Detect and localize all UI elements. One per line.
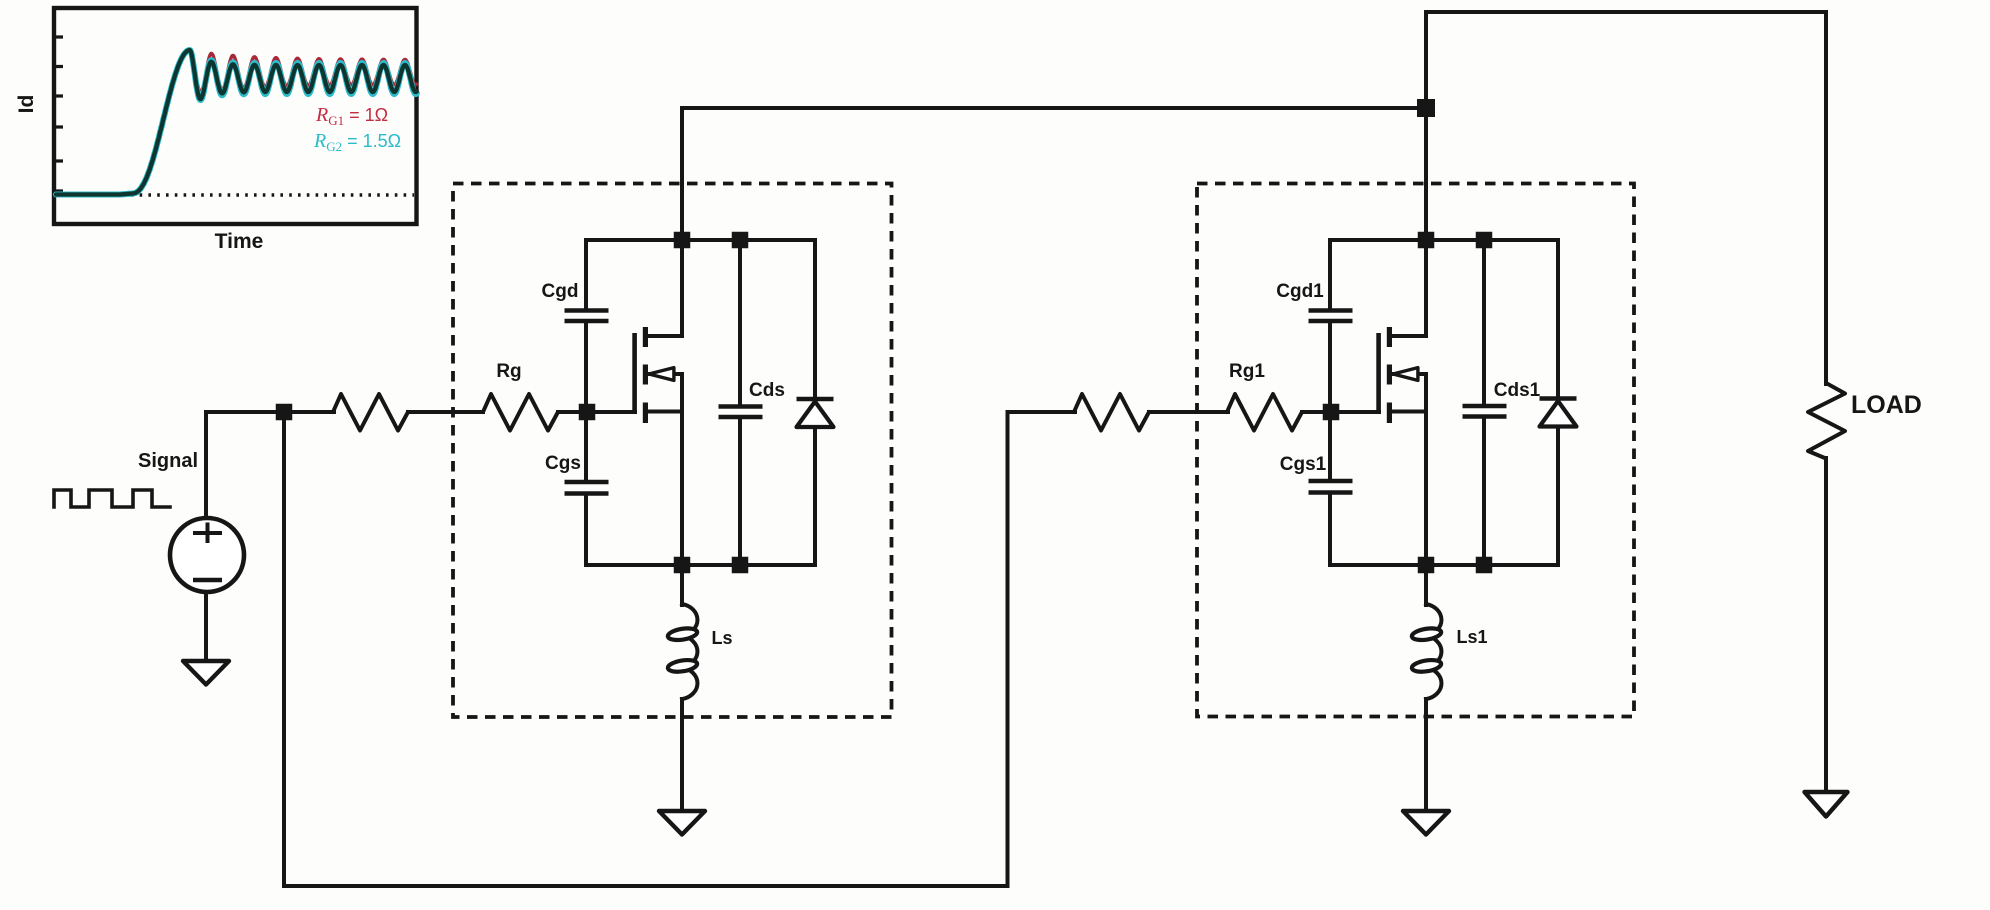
node junction box2 bottom source [1418,557,1435,574]
voltage source plus sign [193,523,222,544]
wire top rail to Cds [738,242,742,404]
capacitor Cgd1 [1309,311,1353,322]
wire top rail to LOAD [1824,12,1828,384]
wire box2 bottom rail [1330,563,1558,567]
inset curve Rg2 (cyan) [56,50,417,195]
dashed box MOSFET model 2 [1197,184,1634,717]
node junction top rail Cds [732,232,749,249]
voltage source minus sign [193,578,222,582]
inductor Ls1 [1426,604,1441,699]
wire top rail to diode D2 [1556,240,1558,397]
wire Cgd to gate node [584,323,588,405]
ground (signal source) [183,661,229,685]
inductor Ls [682,604,697,699]
inset curve overlay (dark teal) [56,50,417,195]
wire gate node to MOSFET2 gate [1331,410,1379,414]
svg-text:Ls: Ls [711,628,732,648]
inset dotted baseline [122,193,414,196]
resistor R1 [333,394,408,431]
node junction bottom rail Cds [732,557,749,574]
inset y-axis ticks [56,37,63,191]
wire source top to node A [206,412,284,518]
voltage source V1 circle [170,518,244,592]
wire source bottom to ground [204,592,208,663]
node junction box2 bottom Cds1 [1476,557,1493,574]
capacitor Cds [719,407,763,418]
wire top rail to Cds1 [1482,242,1486,404]
svg-text:Cgd1: Cgd1 [1276,281,1324,302]
svg-text:Id: Id [15,95,38,114]
wire R2 to Rg1 [1149,410,1228,414]
svg-text:Cds1: Cds1 [1494,380,1541,401]
svg-text:Cgs: Cgs [545,453,581,474]
ground (source 1) [659,811,705,835]
wire top rail to diode D1 [813,240,815,397]
node junction bottom rail source [674,557,691,574]
wire node A to R1 [284,410,334,414]
svg-text:RG1 = 1Ω: RG1 = 1Ω [315,104,388,128]
wire Q2 drain to top rail [1424,108,1428,336]
wire Rg to gate node G1 [558,410,587,414]
transistor Q2 (MOSFET) [1376,333,1381,413]
wire gate node to Cgs [584,419,588,479]
node A junction [276,404,293,421]
wire Ls to ground [680,699,684,813]
wire gate node to MOSFET gate [587,410,635,414]
svg-text:Rg1: Rg1 [1229,361,1265,382]
svg-text:RG2 = 1.5Ω: RG2 = 1.5Ω [313,130,401,154]
wire Cgs1 to box2 bottom rail [1328,495,1332,565]
svg-text:Cgd: Cgd [542,281,579,302]
resistor LOAD [1808,383,1845,459]
dashed box MOSFET model 1 [453,184,892,718]
wire LOAD to ground [1824,458,1828,794]
svg-text:Ls1: Ls1 [1456,627,1487,647]
wire box1 bottom rail [586,563,815,567]
resistor Rg1 [1227,394,1302,431]
diode D1 (body diode) [797,397,834,401]
capacitor Cgd [565,311,609,322]
svg-text:Cds: Cds [749,380,785,401]
node junction mid rail [1417,99,1435,117]
inset plot frame [54,8,417,224]
wire box1 top rail [586,238,815,242]
capacitor Cgs [565,482,609,494]
svg-text:LOAD: LOAD [1851,391,1922,419]
svg-text:Rg: Rg [496,361,521,382]
wire Cds1 to bottom rail [1482,419,1486,565]
wire Ls1 to ground [1424,699,1428,813]
resistor R2 [1074,394,1149,431]
ground (LOAD) [1805,792,1848,817]
wire bottom rail to Ls1 [1424,565,1428,605]
capacitor Cds1 [1463,406,1507,417]
node G1 junction [579,404,596,421]
wire bottom rail to Ls [680,565,684,605]
wire Q1 drain to top rail [680,240,684,336]
svg-text:Cgs1: Cgs1 [1280,454,1327,475]
ground (source 2) [1403,811,1449,835]
node junction top rail drain [674,232,691,249]
transistor Q1 (MOSFET) [632,333,637,413]
wire Q1 source to bottom rail [680,374,684,565]
node G2 junction [1323,404,1340,421]
wire diode D2 to bottom rail [1556,427,1560,566]
resistor Rg [483,394,558,431]
wire box2 top rail [1330,238,1558,242]
wire R1 to Rg [408,410,483,414]
wire diode D1 to bottom rail [813,427,817,565]
wire node A down and along bottom [284,412,1075,886]
wire mid rail (drain bus) [682,108,1426,240]
capacitor Cgs1 [1309,481,1353,493]
wire Cgs to box1 bottom rail [584,496,588,565]
node junction box2 top Cds1 [1476,232,1493,249]
svg-text:Signal: Signal [138,450,198,472]
diode D2 (body diode) [1540,396,1577,400]
wire Cgd1 to gate node [1328,323,1332,405]
node junction box2 top drain [1418,232,1435,249]
wire Cds to bottom rail [738,419,742,565]
wire box1 top-left corner to Cgd [584,242,588,308]
wire Rg1 to gate node G2 [1302,410,1331,414]
wire box2 top-left corner to Cgd1 [1328,242,1332,308]
svg-text:Time: Time [215,230,264,253]
square-wave icon [54,490,170,507]
wire Q2 source to bottom rail [1424,374,1428,565]
wire gate node to Cgs1 [1328,419,1332,478]
wire top rail [1426,12,1826,240]
inset curve Rg1 (red) [140,51,417,190]
